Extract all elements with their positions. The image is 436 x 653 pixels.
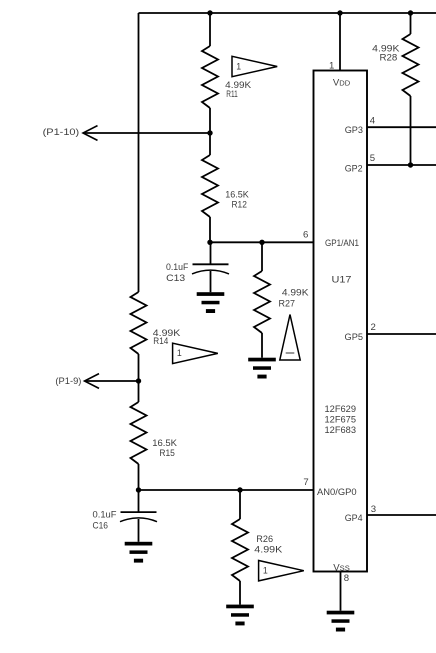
resistor R15	[131, 402, 147, 464]
wire R12 top lead	[209, 133, 211, 155]
wire P1-10	[83, 132, 210, 134]
svg-text:8: 8	[344, 573, 349, 584]
resistor R26	[232, 519, 248, 581]
svg-text:7: 7	[303, 477, 308, 488]
svg-text:6: 6	[303, 230, 308, 241]
svg-text:4.99K: 4.99K	[254, 544, 283, 555]
wire pin 2 (GP5)	[367, 333, 436, 335]
svg-text:1: 1	[177, 348, 182, 358]
junction dot C13 tap	[207, 240, 212, 245]
svg-text:12F629: 12F629	[325, 404, 357, 414]
wire R12 bottom lead	[209, 217, 211, 242]
wire pin 4 (GP3)	[367, 126, 436, 128]
capacitor C16	[121, 511, 157, 513]
ground (R27)	[248, 358, 276, 362]
wire R11 top lead	[209, 13, 211, 46]
svg-text:GP5: GP5	[345, 332, 364, 342]
svg-text:5: 5	[370, 153, 375, 164]
svg-text:GP2: GP2	[345, 164, 363, 174]
junction dot R27 tap	[259, 240, 264, 245]
signal flag 1 (near R26)	[259, 561, 304, 581]
svg-text:C16: C16	[93, 521, 109, 532]
svg-text:R15: R15	[159, 448, 175, 459]
svg-text:R27: R27	[279, 299, 296, 310]
resistor R12	[202, 155, 218, 217]
junction dot P1-9 node	[136, 378, 141, 383]
ground (VSS)	[327, 611, 355, 615]
junction dot R28 top	[408, 10, 413, 15]
junction dot AN0 node	[136, 487, 141, 492]
svg-text:R12: R12	[232, 199, 247, 210]
wire C13 top lead	[210, 242, 212, 264]
ground (R26)	[226, 605, 254, 609]
wire R15 top lead	[138, 381, 140, 402]
wire R15 bottom lead	[138, 464, 140, 490]
wire R14 bottom lead	[138, 354, 140, 381]
svg-text:R11: R11	[226, 89, 238, 100]
svg-text:(P1-9): (P1-9)	[55, 376, 81, 387]
svg-text:0.1uF: 0.1uF	[93, 510, 117, 521]
svg-text:4.99K: 4.99K	[282, 288, 309, 299]
svg-text:12F683: 12F683	[325, 425, 357, 435]
junction dot R28/GP2	[408, 162, 413, 167]
svg-text:0.1uF: 0.1uF	[166, 262, 189, 273]
svg-text:12F675: 12F675	[325, 414, 357, 424]
arrowhead P1-9	[85, 374, 100, 389]
junction dot R26 tap	[237, 487, 242, 492]
svg-text:GP1/AN1: GP1/AN1	[325, 238, 359, 248]
wire R27 bottom lead	[261, 333, 263, 358]
signal flag 1 rotated (near R27)	[280, 315, 300, 361]
svg-text:1: 1	[263, 566, 268, 576]
resistor R28	[403, 34, 419, 96]
wire GP1/AN1 net (pin 6)	[210, 241, 314, 243]
wire R26 top lead	[239, 490, 241, 519]
wire R26 bottom lead	[239, 581, 241, 605]
wire pin 5 (GP2)	[367, 164, 436, 166]
svg-text:2: 2	[371, 322, 376, 333]
svg-text:1: 1	[236, 61, 241, 71]
svg-text:U17: U17	[332, 275, 352, 285]
arrowhead P1-10	[83, 126, 98, 141]
op IC U17 body	[314, 71, 368, 572]
wire left rail	[138, 13, 140, 292]
ground (C16)	[125, 542, 153, 546]
junction dot VDD riser	[337, 10, 342, 15]
svg-text:R14: R14	[153, 336, 169, 347]
wire top rail	[139, 12, 436, 14]
svg-text:R28: R28	[380, 53, 398, 64]
svg-text:VSS: VSS	[333, 563, 350, 574]
wire P1-9	[85, 380, 139, 382]
resistor R11	[202, 46, 218, 108]
wire AN0/GP0 net (pin 7)	[139, 489, 314, 491]
signal flag 1 (near R14)	[173, 343, 218, 363]
svg-text:VDD: VDD	[333, 77, 351, 88]
resistor R27	[254, 271, 270, 333]
svg-text:GP4: GP4	[345, 513, 363, 523]
svg-text:(P1-10): (P1-10)	[43, 127, 80, 138]
wire C16 bottom lead	[138, 519, 140, 542]
wire pin 3 (GP4)	[367, 514, 436, 516]
wire R11 bottom lead	[209, 108, 211, 133]
svg-text:C13: C13	[166, 273, 185, 284]
wire VSS lead (pin 8)	[340, 572, 342, 611]
wire VDD riser (pin 1)	[339, 13, 341, 71]
resistor R14	[131, 292, 147, 354]
svg-text:4: 4	[370, 116, 376, 127]
signal flag 1 (near R11)	[232, 56, 277, 76]
wire R27 top lead	[261, 242, 263, 271]
junction dot P1-10 node	[207, 130, 212, 135]
junction dot R11 top	[207, 10, 212, 15]
svg-text:AN0/GP0: AN0/GP0	[317, 487, 357, 497]
wire R28 top lead	[410, 13, 412, 34]
ground (C13)	[197, 292, 225, 296]
capacitor C13	[193, 263, 229, 265]
svg-text:GP3: GP3	[345, 125, 363, 135]
wire R28 bottom lead	[410, 96, 412, 165]
wire C13 bottom lead	[210, 271, 212, 292]
wire C16 top lead	[138, 490, 140, 512]
svg-text:3: 3	[371, 504, 376, 515]
